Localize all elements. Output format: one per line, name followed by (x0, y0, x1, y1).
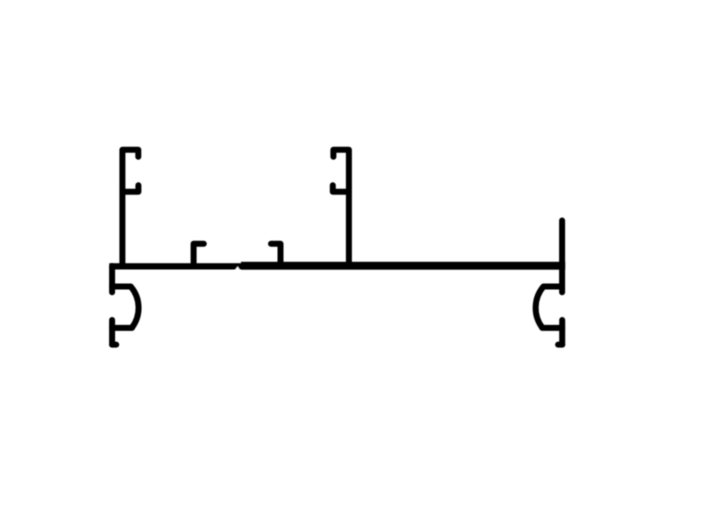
right clip top arm (544, 284, 563, 290)
left clip bottom arm (112, 325, 132, 331)
right clip arc bulging left (536, 287, 544, 328)
middle leg mid arm with up nub (333, 185, 349, 192)
right clip bottom arm (542, 325, 562, 331)
screw-boss stub left (cap points right) (194, 244, 204, 265)
right clip bottom foot pointing left (558, 342, 562, 348)
main base bar left segment (109, 263, 244, 269)
left clip bottom foot pointing right (112, 342, 116, 348)
middle leg: vertical with top hook facing left (333, 150, 349, 266)
left clip top arm (112, 284, 131, 290)
right clip nub-descender vertical (559, 320, 565, 345)
left clip arc bulging right (131, 287, 139, 328)
main base bar right segment (241, 262, 565, 270)
left outer edge drop below base (109, 266, 115, 292)
joint notch in base bar (235, 266, 241, 270)
left glazing leg: vertical with top hook and mid hook (122, 150, 138, 266)
right end vertical upstand (559, 221, 565, 293)
left glazing leg mid arm with up nub (122, 185, 138, 192)
screw-boss stub right (cap points left) (271, 244, 281, 265)
left clip nub-descender vertical (109, 320, 115, 345)
